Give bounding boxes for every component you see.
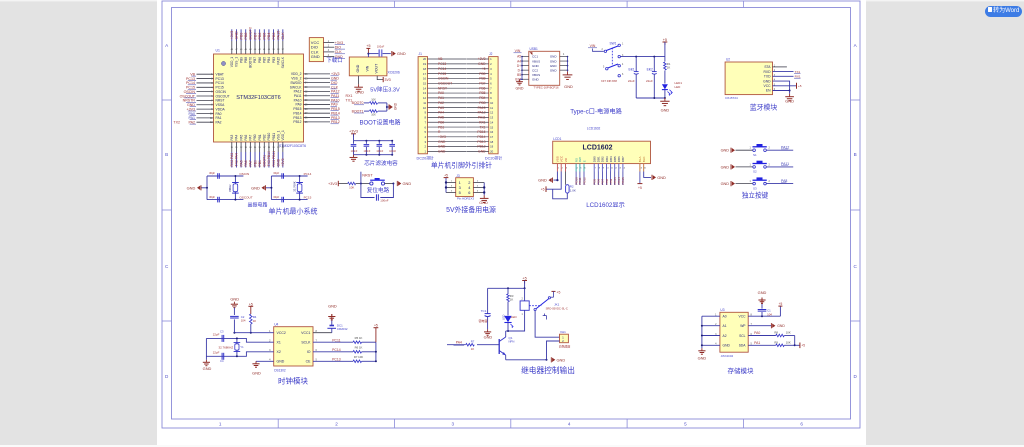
svg-text:PA0: PA0	[438, 91, 444, 95]
svg-text:GND: GND	[311, 54, 320, 59]
svg-text:+5: +5	[557, 291, 561, 295]
svg-text:17: 17	[423, 72, 427, 76]
svg-text:PC15: PC15	[304, 195, 312, 199]
svg-text:X2: X2	[277, 350, 281, 354]
svg-text:PB15: PB15	[477, 130, 485, 134]
svg-text:100nF: 100nF	[351, 150, 358, 153]
svg-text:6: 6	[800, 422, 803, 427]
svg-text:R8: R8	[774, 331, 778, 335]
svg-text:GND: GND	[550, 68, 558, 72]
svg-text:PA3: PA3	[230, 134, 234, 140]
svg-text:钽电容: 钽电容	[478, 318, 487, 323]
svg-text:10K: 10K	[371, 98, 376, 102]
svg-text:KF7 DIP-8X8: KF7 DIP-8X8	[601, 79, 617, 83]
svg-text:DX-BT24: DX-BT24	[725, 96, 738, 100]
svg-text:PB1: PB1	[258, 160, 262, 167]
svg-text:19: 19	[490, 145, 494, 149]
svg-text:PA15: PA15	[478, 106, 486, 110]
svg-text:J3: J3	[456, 174, 460, 178]
svg-text:PA4: PA4	[438, 111, 444, 115]
svg-text:PB6: PB6	[258, 57, 262, 63]
svg-text:RX3 PB11: RX3 PB11	[272, 151, 276, 167]
svg-text:SRD-05VDC-SL-C: SRD-05VDC-SL-C	[546, 306, 568, 310]
svg-text:PA7: PA7	[249, 134, 253, 140]
svg-text:IO: IO	[307, 350, 311, 354]
svg-text:GND: GND	[532, 64, 540, 68]
svg-text:1K: 1K	[667, 66, 671, 70]
svg-text:PA6: PA6	[244, 160, 248, 166]
svg-text:XH1: XH1	[560, 330, 566, 334]
svg-text:DC20排针: DC20排针	[485, 155, 503, 160]
svg-text:PC13: PC13	[332, 358, 341, 362]
svg-text:PB12: PB12	[293, 120, 301, 124]
svg-text:U2: U2	[726, 58, 730, 62]
svg-text:PB4: PB4	[267, 33, 271, 40]
svg-text:SWCLK: SWCLK	[281, 56, 285, 68]
svg-text:J1: J1	[419, 52, 423, 56]
svg-text:PB13: PB13	[477, 140, 485, 144]
svg-text:30pF: 30pF	[209, 195, 215, 199]
svg-text:+5: +5	[366, 44, 370, 48]
svg-text:PB9: PB9	[479, 72, 485, 76]
svg-text:12: 12	[423, 96, 427, 100]
svg-text:时钟模块: 时钟模块	[278, 376, 308, 386]
svg-text:白色底座: 白色底座	[559, 344, 571, 349]
svg-text:XC6206: XC6206	[388, 71, 400, 75]
svg-text:22uF: 22uF	[646, 79, 653, 83]
svg-text:GND: GND	[403, 181, 412, 186]
svg-text:LCD1: LCD1	[553, 137, 561, 141]
svg-text:PB0: PB0	[253, 160, 257, 167]
svg-text:CC1: CC1	[532, 55, 538, 59]
svg-text:WP: WP	[740, 324, 746, 328]
svg-text:GND: GND	[550, 59, 558, 63]
svg-text:PA5: PA5	[438, 116, 444, 120]
svg-text:GND: GND	[394, 102, 398, 110]
svg-text:18: 18	[423, 67, 427, 71]
svg-text:CR2032: CR2032	[337, 327, 348, 331]
svg-text:+3V3: +3V3	[349, 130, 358, 134]
svg-text:RXD: RXD	[764, 70, 772, 74]
svg-text:GND: GND	[203, 366, 212, 371]
svg-text:GND: GND	[550, 55, 558, 59]
svg-text:PA4: PA4	[456, 341, 462, 345]
svg-text:下载口: 下载口	[326, 56, 342, 64]
svg-text:S3: S3	[753, 186, 757, 190]
svg-text:VCC: VCC	[764, 84, 772, 88]
svg-text:GND: GND	[438, 145, 446, 149]
svg-text:Y1: Y1	[240, 345, 244, 349]
svg-text:VBUS: VBUS	[532, 73, 540, 77]
svg-text:TXD: TXD	[764, 75, 771, 79]
svg-text:10K: 10K	[371, 113, 376, 117]
svg-text:U3: U3	[720, 308, 724, 312]
svg-text:U4: U4	[274, 323, 278, 327]
svg-text:R7: R7	[471, 339, 475, 343]
svg-text:GND: GND	[251, 185, 260, 190]
svg-text:晶振电路: 晶振电路	[247, 202, 267, 209]
svg-text:TX2: TX2	[173, 121, 180, 125]
svg-text:PB0: PB0	[253, 134, 257, 140]
svg-text:LCD1602: LCD1602	[583, 145, 613, 152]
svg-text:PA3: PA3	[438, 106, 444, 110]
svg-text:NRST: NRST	[438, 86, 447, 90]
svg-text:PB9: PB9	[239, 57, 243, 63]
svg-text:100nF: 100nF	[389, 150, 396, 153]
svg-text:RX1: RX1	[479, 120, 486, 124]
svg-text:TX3 PB10: TX3 PB10	[267, 151, 271, 167]
svg-text:VDD_1: VDD_1	[230, 57, 234, 68]
svg-text:LED: LED	[511, 315, 518, 319]
svg-text:A4: A4	[517, 59, 521, 63]
svg-text:5V降压3.3V: 5V降压3.3V	[370, 85, 400, 93]
svg-text:GND: GND	[355, 90, 364, 95]
svg-text:GND: GND	[356, 64, 360, 72]
svg-text:1K: 1K	[471, 347, 475, 351]
svg-text:4: 4	[568, 422, 571, 427]
svg-text:22pF: 22pF	[213, 333, 220, 337]
svg-text:8MHz: 8MHz	[228, 184, 232, 192]
svg-text:PB3: PB3	[272, 33, 276, 40]
svg-text:10: 10	[423, 106, 427, 110]
svg-text:A1: A1	[723, 324, 727, 328]
svg-text:PA11: PA11	[478, 116, 486, 120]
svg-text:BLK: BLK	[642, 157, 646, 163]
svg-text:存储模块: 存储模块	[728, 366, 755, 375]
svg-text:PB6: PB6	[479, 86, 485, 90]
svg-text:C4: C4	[220, 359, 224, 363]
svg-text:1K: 1K	[253, 319, 257, 323]
svg-text:3V3: 3V3	[385, 78, 391, 82]
svg-text:B: B	[165, 152, 168, 157]
svg-text:15: 15	[490, 125, 494, 129]
svg-text:16: 16	[490, 130, 494, 134]
svg-text:VDD_1: VDD_1	[281, 130, 285, 141]
svg-text:GND: GND	[235, 31, 239, 40]
svg-text:GND: GND	[187, 185, 196, 190]
svg-text:EN: EN	[766, 89, 771, 93]
svg-text:20: 20	[490, 150, 494, 154]
svg-text:GND: GND	[478, 150, 486, 154]
svg-text:VBUS: VBUS	[532, 59, 540, 63]
svg-text:Type-c口-电源电路: Type-c口-电源电路	[570, 108, 622, 116]
svg-text:PC11: PC11	[332, 338, 340, 342]
svg-text:104: 104	[767, 313, 772, 317]
svg-text:+5: +5	[482, 67, 486, 71]
svg-text:GND: GND	[484, 334, 493, 339]
svg-text:GND: GND	[723, 344, 731, 348]
svg-text:GND: GND	[777, 324, 785, 328]
svg-text:+5: +5	[444, 173, 448, 177]
svg-text:+3V3: +3V3	[438, 135, 446, 139]
svg-text:蓝牙模块: 蓝牙模块	[750, 103, 778, 112]
svg-text:DC20排针: DC20排针	[417, 155, 435, 160]
svg-text:100uF: 100uF	[377, 45, 385, 49]
svg-text:11: 11	[423, 101, 426, 105]
svg-text:VOUT: VOUT	[375, 63, 379, 74]
svg-text:+5: +5	[522, 276, 526, 280]
svg-text:LED: LED	[502, 315, 506, 320]
svg-text:+3V3: +3V3	[281, 158, 285, 166]
svg-text:TYPEC-16P-BCP16: TYPEC-16P-BCP16	[533, 86, 558, 90]
svg-text:100nF: 100nF	[380, 198, 388, 202]
svg-text:1.0K: 1.0K	[570, 188, 576, 192]
svg-text:104: 104	[241, 319, 246, 323]
svg-text:+3V3: +3V3	[230, 31, 234, 40]
svg-text:单片机引脚外引排针: 单片机引脚外引排针	[431, 161, 492, 170]
svg-text:SW1: SW1	[610, 42, 617, 46]
svg-text:GND: GND	[763, 79, 771, 83]
svg-text:R9: R9	[774, 340, 778, 344]
svg-text:SDA: SDA	[739, 344, 747, 348]
svg-text:5V外接备用电源: 5V外接备用电源	[446, 205, 496, 214]
svg-text:VCC: VCC	[739, 315, 747, 319]
svg-text:+: +	[649, 67, 651, 71]
svg-text:GND: GND	[550, 64, 558, 68]
svg-text:GND: GND	[532, 77, 540, 81]
svg-text:DB7: DB7	[621, 156, 625, 162]
svg-text:GND: GND	[277, 158, 281, 166]
svg-text:D+: D+	[517, 64, 521, 68]
svg-text:GND: GND	[438, 150, 446, 154]
svg-text:TX1: TX1	[795, 70, 801, 74]
svg-text:1: 1	[219, 422, 222, 427]
svg-text:PB12: PB12	[582, 177, 586, 185]
svg-text:PB0: PB0	[438, 120, 444, 124]
svg-text:独立按键: 独立按键	[742, 190, 769, 199]
svg-text:PA5: PA5	[239, 134, 243, 140]
svg-text:RX2 PA3: RX2 PA3	[230, 153, 234, 167]
svg-text:R5 1K: R5 1K	[355, 336, 363, 340]
svg-text:GND: GND	[557, 357, 566, 362]
svg-text:14: 14	[423, 86, 427, 90]
svg-text:11: 11	[490, 106, 493, 110]
svg-text:PC14: PC14	[332, 348, 341, 352]
svg-text:S1: S1	[753, 153, 757, 157]
svg-text:PB5: PB5	[479, 91, 485, 95]
svg-text:22uF: 22uF	[628, 79, 635, 83]
svg-text:VIN: VIN	[366, 65, 370, 71]
svg-text:LCD1602显示: LCD1602显示	[586, 202, 625, 209]
svg-text:VO: VO	[564, 157, 568, 162]
svg-text:A2: A2	[723, 334, 727, 338]
svg-text:B: B	[854, 152, 857, 157]
svg-text:PA2: PA2	[438, 101, 444, 105]
svg-text:USB1: USB1	[530, 47, 539, 51]
svg-text:PB6: PB6	[258, 33, 262, 40]
svg-text:GND: GND	[252, 371, 261, 376]
svg-text:100nF: 100nF	[376, 150, 383, 153]
svg-text:TX2 PA4: TX2 PA4	[235, 153, 239, 166]
svg-text:LCD1602: LCD1602	[587, 127, 601, 131]
svg-text:20: 20	[423, 57, 427, 61]
svg-text:32.768K: 32.768K	[292, 181, 296, 192]
svg-text:30pF: 30pF	[273, 171, 279, 175]
svg-text:PA12: PA12	[478, 111, 486, 115]
svg-text:+5: +5	[663, 38, 667, 42]
svg-text:13: 13	[490, 116, 494, 120]
svg-text:GND: GND	[516, 87, 524, 91]
svg-text:PB4: PB4	[479, 96, 485, 100]
svg-text:SCLK: SCLK	[301, 341, 311, 345]
svg-text:PB11: PB11	[272, 133, 276, 141]
svg-text:PC15: PC15	[438, 72, 446, 76]
svg-text:GND: GND	[721, 165, 730, 169]
svg-text:2: 2	[335, 422, 338, 427]
svg-text:GND: GND	[538, 178, 547, 183]
svg-text:VCC2: VCC2	[277, 331, 286, 335]
svg-text:PB7: PB7	[253, 33, 257, 40]
svg-text:+3V3: +3V3	[328, 182, 337, 186]
svg-text:GND: GND	[698, 356, 707, 361]
svg-text:E: E	[582, 160, 586, 162]
svg-text:10: 10	[490, 101, 494, 105]
svg-text:A0: A0	[723, 315, 727, 319]
svg-text:18: 18	[490, 140, 494, 144]
svg-text:+5: +5	[779, 302, 783, 306]
svg-text:30pF: 30pF	[273, 195, 279, 199]
svg-text:A5: A5	[517, 55, 521, 59]
svg-text:+5: +5	[638, 186, 642, 190]
svg-text:30pF: 30pF	[209, 171, 215, 175]
svg-text:OSCOUT: OSCOUT	[239, 195, 252, 199]
svg-text:SCL: SCL	[739, 334, 746, 338]
svg-text:GND: GND	[478, 62, 486, 66]
svg-text:CLK: CLK	[281, 32, 285, 40]
svg-text:PC14: PC14	[438, 67, 446, 71]
svg-text:GND: GND	[397, 51, 406, 56]
svg-text:BOOT0: BOOT0	[249, 27, 253, 40]
svg-text:Pin HDR2X3: Pin HDR2X3	[457, 197, 474, 201]
svg-text:STA: STA	[764, 65, 771, 69]
svg-text:芯片滤波电容: 芯片滤波电容	[364, 159, 398, 167]
svg-text:PA2: PA2	[216, 121, 222, 125]
svg-text:PA6: PA6	[244, 134, 248, 140]
svg-text:B5: B5	[517, 73, 521, 77]
svg-text:RX1: RX1	[795, 75, 801, 79]
svg-text:10K: 10K	[786, 331, 791, 335]
svg-text:+5: +5	[801, 344, 805, 348]
svg-text:LED: LED	[675, 85, 682, 89]
svg-text:13: 13	[423, 91, 427, 95]
svg-text:J2: J2	[489, 52, 493, 56]
svg-text:PB15: PB15	[621, 177, 625, 185]
svg-text:PB9: PB9	[239, 33, 243, 40]
svg-text:PB1: PB1	[438, 125, 444, 129]
svg-text:PA7: PA7	[249, 160, 253, 166]
svg-text:单片机最小系统: 单片机最小系统	[269, 207, 318, 216]
svg-text:PA0: PA0	[754, 331, 760, 335]
svg-text:32.768KHZ: 32.768KHZ	[218, 345, 233, 349]
svg-text:GND: GND	[479, 201, 488, 205]
svg-text:PB7: PB7	[479, 82, 485, 86]
svg-text:10K: 10K	[349, 186, 354, 190]
svg-text:PB5: PB5	[263, 33, 267, 40]
svg-text:TX1: TX1	[479, 125, 485, 129]
svg-text:5: 5	[459, 190, 461, 195]
svg-text:PA5: PA5	[239, 160, 243, 166]
svg-text:GND: GND	[721, 149, 730, 153]
svg-text:12: 12	[490, 111, 494, 115]
svg-text:100nF: 100nF	[364, 150, 371, 153]
svg-text:+5: +5	[374, 323, 378, 327]
svg-text:PA15: PA15	[276, 57, 280, 65]
svg-text:GND: GND	[721, 182, 730, 186]
svg-text:+5: +5	[541, 187, 545, 191]
svg-text:VSS_1: VSS_1	[235, 57, 239, 67]
svg-text:C3: C3	[220, 329, 224, 333]
svg-text:DS1302: DS1302	[274, 368, 286, 372]
svg-text:BOOT0: BOOT0	[249, 57, 253, 68]
svg-text:OSCOUT: OSCOUT	[438, 82, 452, 86]
svg-text:6: 6	[468, 190, 470, 195]
svg-text:14: 14	[490, 120, 494, 124]
svg-text:GND: GND	[657, 175, 666, 180]
svg-text:+: +	[631, 67, 633, 71]
svg-text:GND: GND	[277, 360, 285, 364]
svg-text:PB3: PB3	[479, 101, 485, 105]
svg-text:PB8: PB8	[244, 57, 248, 63]
svg-text:3: 3	[452, 422, 455, 427]
svg-text:NRST: NRST	[362, 173, 373, 177]
svg-text:PB8: PB8	[244, 33, 248, 40]
svg-text:PA1: PA1	[438, 96, 444, 100]
svg-text:1K: 1K	[510, 298, 514, 302]
svg-text:PB1: PB1	[258, 134, 262, 140]
svg-text:GND: GND	[230, 296, 239, 301]
svg-text:BOOT设置电路: BOOT设置电路	[359, 119, 400, 127]
svg-text:CC2: CC2	[532, 68, 538, 72]
svg-text:17: 17	[490, 135, 494, 139]
svg-text:PB14: PB14	[477, 135, 485, 139]
svg-text:R7 10K: R7 10K	[354, 355, 363, 359]
svg-text:PA4: PA4	[235, 134, 239, 140]
svg-text:GND: GND	[564, 84, 573, 89]
svg-text:PB4: PB4	[267, 57, 271, 63]
svg-text:PB7: PB7	[253, 57, 257, 63]
svg-text:PB5: PB5	[262, 57, 266, 63]
svg-text:BOOT1: BOOT1	[263, 155, 267, 167]
svg-text:GND: GND	[661, 107, 670, 112]
svg-text:PA12: PA12	[781, 145, 789, 149]
svg-text:STM32F103C8T6: STM32F103C8T6	[236, 95, 280, 101]
svg-text:D-: D-	[518, 68, 521, 72]
svg-text:PC14: PC14	[304, 172, 312, 176]
svg-text:PB10: PB10	[267, 132, 271, 140]
svg-text:GND: GND	[438, 140, 446, 144]
svg-text:19: 19	[423, 62, 427, 66]
svg-text:10K: 10K	[786, 340, 791, 344]
svg-text:GND: GND	[758, 290, 767, 295]
svg-text:PA1: PA1	[754, 341, 760, 345]
svg-text:16: 16	[423, 77, 427, 81]
svg-text:VCC1: VCC1	[301, 331, 310, 335]
svg-text:22pF: 22pF	[213, 350, 220, 354]
svg-text:R6 1K: R6 1K	[355, 346, 363, 350]
svg-text:GND: GND	[328, 304, 337, 309]
svg-text:OSCIN: OSCIN	[239, 172, 249, 176]
svg-text:OSCIN: OSCIN	[438, 77, 449, 81]
svg-text:继电器控制输出: 继电器控制输出	[521, 365, 575, 375]
svg-text:PB2: PB2	[262, 134, 266, 140]
svg-text:AT24C02: AT24C02	[721, 354, 734, 358]
svg-text:S2: S2	[753, 170, 757, 174]
svg-text:NPN: NPN	[509, 340, 515, 344]
svg-text:5: 5	[684, 422, 687, 427]
svg-text:+5: +5	[798, 84, 802, 88]
svg-text:X1: X1	[277, 341, 281, 345]
svg-text:PA15: PA15	[277, 31, 281, 40]
